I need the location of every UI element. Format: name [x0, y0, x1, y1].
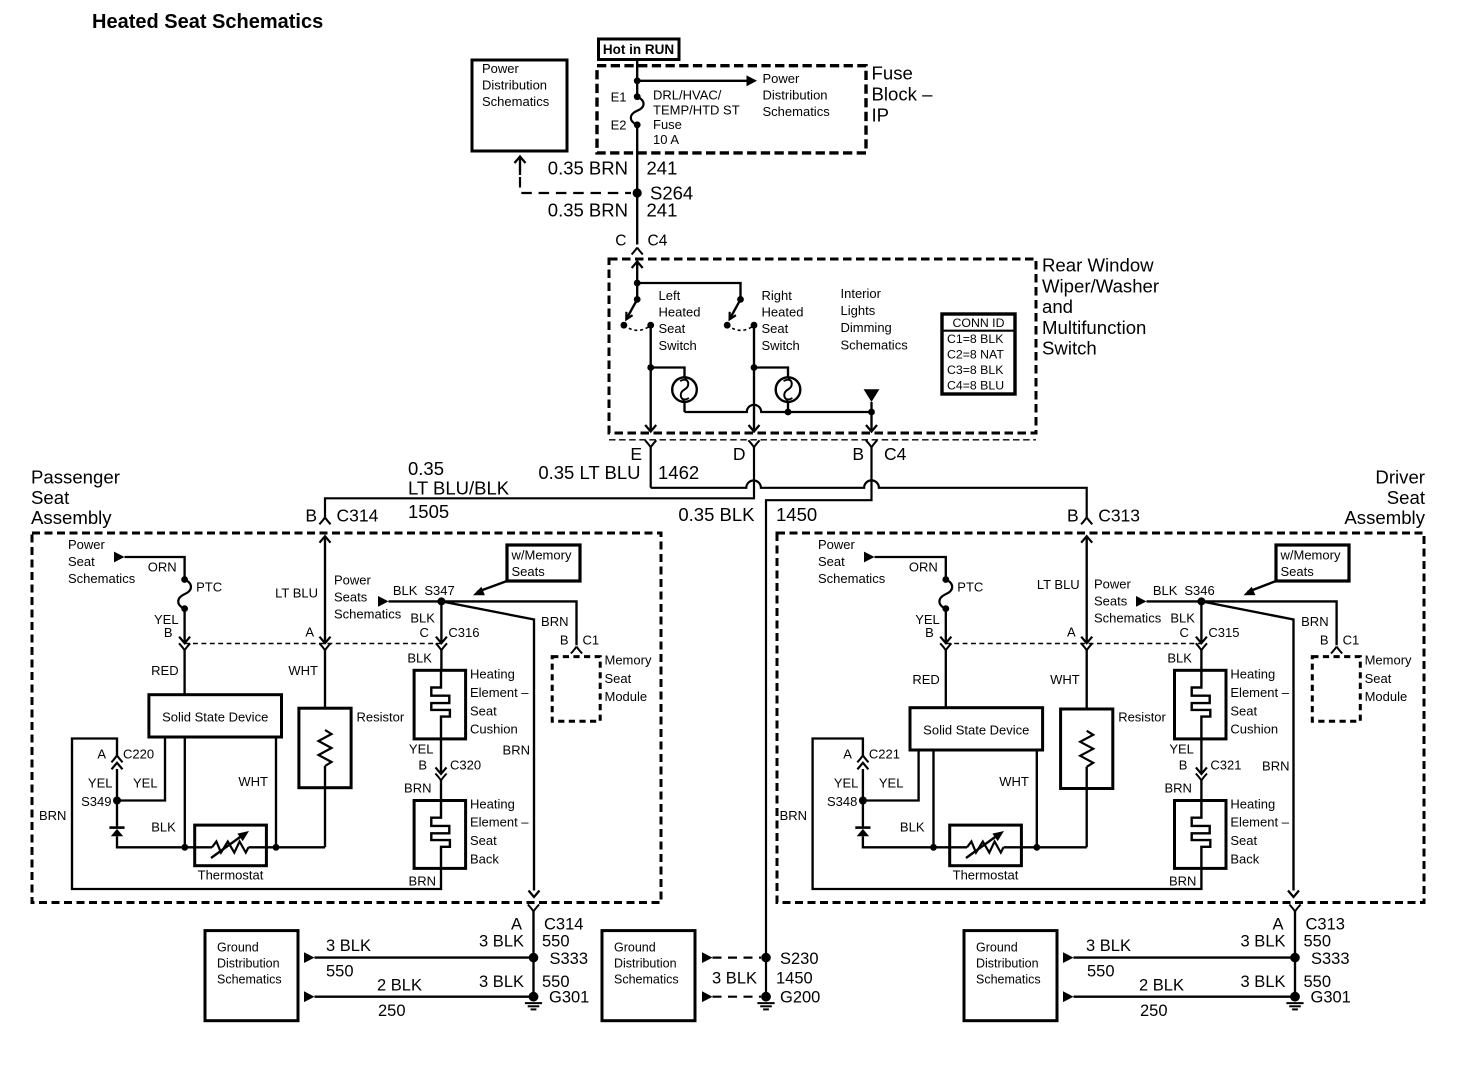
svg-text:G301: G301 — [549, 989, 589, 1007]
wire splice to connector A passenger — [112, 763, 123, 801]
svg-text:Assembly: Assembly — [1344, 507, 1425, 528]
svg-text:Memory: Memory — [1365, 653, 1412, 668]
splice S230 — [761, 950, 818, 968]
svg-text:Power: Power — [1094, 577, 1132, 592]
svg-text:A: A — [843, 747, 852, 762]
svg-text:Power: Power — [482, 61, 520, 76]
label power seat schematics driver — [818, 537, 886, 586]
wire left switch output — [650, 325, 652, 367]
svg-text:B: B — [305, 506, 317, 526]
svg-text:S230: S230 — [780, 950, 819, 968]
wire from power seat schematics passenger — [114, 552, 185, 580]
svg-text:Driver: Driver — [1375, 467, 1425, 488]
svg-text:10 A: 10 A — [653, 132, 679, 147]
svg-text:Seat: Seat — [68, 554, 95, 569]
label ORN passenger — [148, 560, 177, 575]
label YEL pin B passenger — [154, 612, 179, 640]
svg-text:0.35 BLK: 0.35 BLK — [678, 504, 755, 525]
switch SW2 right heated seat switch — [724, 296, 758, 330]
svg-text:Schematics: Schematics — [763, 104, 831, 119]
svg-text:C1=8 BLK: C1=8 BLK — [947, 332, 1004, 346]
label BLK feed passenger — [393, 583, 418, 598]
svg-text:C4: C4 — [884, 444, 907, 464]
svg-text:3 BLK: 3 BLK — [1241, 973, 1286, 991]
splice S333 passenger — [529, 950, 588, 968]
svg-text:0.35 BRN: 0.35 BRN — [548, 158, 628, 179]
svg-text:Schematics: Schematics — [818, 571, 886, 586]
label 0.35 BRN 241 lower — [548, 200, 678, 221]
wire SSD wht pin to thermostat passenger — [275, 737, 277, 847]
connector C315 pin C driver — [1180, 625, 1240, 650]
wire right lamp to return — [787, 402, 789, 412]
svg-text:Seats: Seats — [512, 564, 546, 579]
wire fuse output 241 — [636, 125, 638, 245]
wire PTC to connector B passenger — [179, 609, 190, 644]
label passenger seat assembly — [31, 467, 120, 529]
label 0.35 LT BLU 1462 — [538, 462, 699, 483]
in-seat connector interface line driver — [946, 643, 1202, 645]
svg-text:241: 241 — [647, 158, 678, 179]
connector C1 pin B passenger — [560, 633, 599, 654]
svg-text:A: A — [305, 625, 314, 640]
svg-text:WHT: WHT — [1050, 672, 1080, 687]
svg-text:Distribution: Distribution — [763, 87, 828, 102]
svg-text:Module: Module — [1365, 689, 1408, 704]
svg-text:Seat: Seat — [1230, 703, 1257, 718]
wire BRN seat return driver — [1201, 601, 1299, 897]
splice S348 driver — [827, 794, 867, 809]
label 0.35 BLK 1450 — [678, 504, 817, 525]
dimming feed triangle — [864, 389, 880, 412]
memory seat module driver — [1312, 653, 1412, 722]
wire right switch to connector D — [749, 368, 760, 432]
label BLK below splice driver — [1170, 611, 1195, 626]
connector C220 pin A passenger — [97, 747, 154, 763]
wire left switch to connector E — [645, 368, 656, 432]
label YEL pin B element driver — [1169, 742, 1241, 773]
label WHT feed driver — [1050, 672, 1080, 687]
svg-text:B: B — [418, 758, 427, 773]
svg-text:Seat: Seat — [31, 487, 70, 508]
svg-text:1505: 1505 — [408, 501, 449, 522]
label YEL pin B driver — [915, 612, 940, 640]
svg-text:WHT: WHT — [999, 774, 1029, 789]
fuse F DRL/HVAC/TEMP/HTD ST 10A — [631, 97, 644, 125]
svg-text:RED: RED — [151, 663, 178, 678]
label heating element seat back passenger — [470, 796, 529, 866]
diode CR1 passenger — [109, 801, 184, 848]
connector C1 pin B driver — [1320, 633, 1359, 654]
wire 1450 BLK pin B to ground — [766, 447, 872, 996]
label power seats schematics driver — [1094, 577, 1162, 626]
label BRN element top passenger — [404, 781, 431, 796]
svg-text:BRN: BRN — [541, 614, 568, 629]
node right lamp tap — [751, 364, 758, 371]
svg-text:2 BLK: 2 BLK — [377, 977, 422, 995]
lamp left switch illumination — [672, 377, 697, 402]
wire power seats schematics to splice passenger — [378, 596, 441, 607]
label BRN loop passenger — [39, 808, 66, 823]
svg-text:Seat: Seat — [605, 671, 632, 686]
wire SSD blk pin to thermostat passenger — [184, 737, 186, 847]
heating element seat back passenger — [414, 801, 466, 869]
seat assembly dashed box passenger — [32, 533, 661, 903]
svg-text:241: 241 — [647, 200, 678, 221]
splice S346 driver — [1184, 583, 1214, 605]
label 3 BLK 550 lower driver — [1241, 973, 1331, 991]
ground G301 passenger — [525, 989, 589, 1010]
wire C4-C into switch — [632, 262, 643, 284]
svg-text:YEL: YEL — [133, 776, 158, 791]
label power distribution schematics — [763, 71, 831, 119]
node thermostat left junction driver — [930, 844, 937, 851]
wire 550 ground feed driver — [1063, 952, 1295, 963]
thermistor PTC driver — [939, 576, 983, 612]
svg-text:YEL: YEL — [409, 742, 434, 757]
svg-text:3 BLK: 3 BLK — [479, 933, 524, 951]
heating element seat cushion driver — [1175, 670, 1227, 739]
svg-text:Passenger: Passenger — [31, 467, 120, 488]
svg-text:Ground: Ground — [217, 941, 259, 955]
svg-text:BRN: BRN — [503, 743, 530, 758]
svg-text:BLK: BLK — [393, 583, 418, 598]
svg-text:YEL: YEL — [834, 776, 859, 791]
solid state device passenger — [149, 695, 282, 737]
wire splice to connector C passenger — [436, 601, 447, 643]
svg-text:3 BLK: 3 BLK — [1086, 937, 1131, 955]
svg-text:Schematics: Schematics — [334, 607, 402, 622]
svg-text:Cushion: Cushion — [470, 722, 518, 737]
connector C4 pin E — [630, 440, 656, 464]
label WHT ssd passenger — [238, 774, 268, 789]
wire to left lamp — [651, 368, 685, 378]
label 3 BLK 550 lower passenger — [479, 973, 569, 991]
svg-text:ORN: ORN — [148, 560, 177, 575]
svg-text:E2: E2 — [611, 118, 627, 133]
svg-text:1462: 1462 — [658, 462, 699, 483]
label BRN return passenger — [503, 743, 530, 758]
heating element seat cushion passenger — [414, 670, 466, 739]
svg-text:C321: C321 — [1210, 758, 1241, 773]
node lamp return junction — [785, 409, 792, 416]
svg-text:BRN: BRN — [409, 874, 436, 889]
svg-text:Resistor: Resistor — [357, 710, 405, 725]
label Fuse Block IP — [872, 63, 934, 126]
wire SSD yel pin to splice driver — [863, 750, 919, 801]
label BRN element top driver — [1164, 781, 1191, 796]
svg-text:G200: G200 — [780, 989, 820, 1007]
svg-text:C3=8 BLK: C3=8 BLK — [947, 363, 1004, 377]
svg-text:Distribution: Distribution — [614, 957, 677, 971]
label 3 BLK 550 upper passenger — [479, 933, 569, 951]
wire to heating element back driver — [1200, 781, 1202, 801]
svg-text:Seat: Seat — [470, 833, 497, 848]
svg-text:E1: E1 — [611, 90, 627, 105]
label WHT ssd driver — [999, 774, 1029, 789]
connector C4 interface line — [609, 439, 1036, 441]
label fuse name — [653, 88, 740, 147]
thermostat passenger — [185, 825, 325, 882]
svg-text:G301: G301 — [1311, 989, 1351, 1007]
label BRN element bottom driver — [1169, 874, 1196, 889]
wire SSD yel pin to splice passenger — [117, 737, 165, 801]
thermistor PTC passenger — [178, 576, 222, 612]
wire BRN ground loop driver — [813, 739, 1202, 890]
svg-text:Block –: Block – — [872, 84, 934, 105]
svg-text:0.35 BRN: 0.35 BRN — [548, 200, 628, 221]
wire connector to S333 driver — [1294, 912, 1296, 997]
svg-text:C: C — [615, 233, 626, 250]
wire splice to connector C driver — [1196, 601, 1207, 643]
dashed reference wire to S264 — [515, 157, 632, 194]
svg-text:S333: S333 — [1311, 950, 1350, 968]
svg-text:w/Memory: w/Memory — [1280, 548, 1341, 563]
label BLK below splice passenger — [410, 611, 435, 626]
resistor R1 driver — [1061, 709, 1113, 847]
connector C313 pin A driver — [1272, 905, 1344, 934]
label 0.35 BRN 241 upper — [548, 158, 678, 179]
svg-text:Cushion: Cushion — [1230, 722, 1278, 737]
svg-text:0.35: 0.35 — [408, 458, 444, 479]
svg-text:Element –: Element – — [470, 685, 529, 700]
label right heated seat switch — [762, 288, 804, 353]
heating element seat back driver — [1175, 801, 1227, 869]
svg-text:BLK: BLK — [1167, 651, 1192, 666]
wire SSD blk pin to thermostat driver — [932, 750, 934, 847]
ground distribution schematics box driver — [964, 931, 1057, 1021]
svg-text:Assembly: Assembly — [31, 507, 112, 528]
svg-text:C1: C1 — [1343, 633, 1360, 648]
label left heated seat switch — [659, 288, 701, 353]
label driver seat assembly — [1344, 467, 1425, 529]
label RED driver — [912, 672, 939, 687]
label BRN loop driver — [780, 808, 807, 823]
switch SW1 left heated seat switch — [621, 296, 655, 330]
svg-text:C314: C314 — [337, 506, 379, 526]
connector pin A driver — [1067, 625, 1092, 651]
connector C314 pin B — [305, 506, 378, 526]
svg-text:Distribution: Distribution — [976, 957, 1039, 971]
label BLK ssd driver — [900, 820, 925, 835]
svg-text:Heated Seat Schematics: Heated Seat Schematics — [92, 11, 323, 33]
svg-text:Module: Module — [605, 689, 648, 704]
connector pin B to solid state device driver — [940, 643, 951, 707]
svg-text:Heating: Heating — [1230, 667, 1275, 682]
thermostat driver — [934, 825, 1087, 882]
svg-text:Heated: Heated — [659, 305, 701, 320]
connector C4 pin B — [852, 440, 906, 464]
svg-text:YEL: YEL — [1169, 742, 1194, 757]
svg-text:B: B — [164, 625, 173, 640]
svg-text:Schematics: Schematics — [976, 973, 1041, 987]
svg-text:S348: S348 — [827, 794, 857, 809]
connector pin A passenger — [305, 625, 330, 651]
connector pin B to solid state device passenger — [179, 643, 190, 694]
wire 550 ground feed passenger — [304, 952, 534, 963]
splice S264 — [633, 183, 694, 204]
svg-text:0.35 LT BLU: 0.35 LT BLU — [538, 462, 640, 483]
svg-text:Schematics: Schematics — [482, 94, 550, 109]
wire Hot in RUN to fuse — [636, 60, 638, 97]
connector C221 pin A driver — [843, 747, 900, 763]
svg-text:Heating: Heating — [470, 796, 515, 811]
svg-text:Element –: Element – — [1230, 685, 1289, 700]
svg-text:ORN: ORN — [909, 560, 938, 575]
label 3 BLK 550 upper driver — [1241, 933, 1331, 951]
svg-text:Seats: Seats — [334, 590, 368, 605]
svg-text:S346: S346 — [1184, 583, 1214, 598]
svg-text:PTC: PTC — [957, 580, 983, 595]
svg-text:C220: C220 — [123, 747, 154, 762]
connector C313 pin B — [1067, 506, 1140, 526]
svg-text:Power: Power — [68, 537, 106, 552]
label heating element seat cushion passenger — [470, 667, 529, 737]
svg-text:C1: C1 — [583, 633, 600, 648]
svg-text:Multifunction: Multifunction — [1042, 317, 1146, 338]
svg-text:1450: 1450 — [776, 970, 813, 988]
label heating element seat back driver — [1230, 796, 1289, 866]
connector C320 passenger — [435, 739, 446, 781]
svg-text:YEL: YEL — [88, 776, 113, 791]
wire BRN ground loop passenger — [72, 739, 441, 890]
svg-text:YEL: YEL — [879, 776, 904, 791]
wire 1505 LT BLU/BLK pin D to passenger seat — [325, 447, 754, 517]
wire WHT to resistor passenger — [324, 650, 326, 708]
svg-text:3 BLK: 3 BLK — [326, 937, 371, 955]
svg-text:S349: S349 — [81, 794, 111, 809]
node thermostat left junction passenger — [181, 844, 188, 851]
label BLK feed driver — [1153, 583, 1178, 598]
fuse block dashed box — [597, 66, 866, 153]
svg-text:3 BLK: 3 BLK — [479, 973, 524, 991]
svg-text:C320: C320 — [450, 758, 481, 773]
ground distribution schematics box middle — [602, 931, 695, 1021]
svg-text:BRN: BRN — [1301, 614, 1328, 629]
svg-text:Thermostat: Thermostat — [198, 868, 264, 883]
fuse terminal E1 — [611, 90, 641, 105]
label resistor driver — [1118, 710, 1166, 725]
svg-text:Ground: Ground — [614, 941, 656, 955]
in-seat connector interface line passenger — [185, 643, 441, 645]
svg-text:Seat: Seat — [1365, 671, 1392, 686]
wire 250 ground feed passenger — [304, 991, 534, 1002]
power distribution schematics box — [472, 60, 567, 151]
label power seat schematics passenger — [68, 537, 136, 586]
svg-text:C314: C314 — [544, 916, 583, 934]
svg-text:Seat: Seat — [659, 321, 686, 336]
svg-text:BLK: BLK — [407, 651, 432, 666]
diode CR1 driver — [855, 801, 933, 848]
wire SSD wht pin to thermostat driver — [1036, 750, 1038, 847]
label YEL pair passenger — [88, 776, 158, 791]
multifunction switch dashed box — [609, 259, 1036, 433]
label RED passenger — [151, 663, 178, 678]
svg-text:3 BLK: 3 BLK — [712, 970, 757, 988]
svg-text:Back: Back — [470, 851, 499, 866]
svg-text:A: A — [1067, 625, 1076, 640]
resistor R1 passenger — [299, 708, 351, 847]
svg-text:C: C — [420, 625, 429, 640]
connector C321 driver — [1196, 739, 1207, 781]
label 0.35 LT BLU/BLK 1505 — [408, 458, 510, 522]
svg-text:1450: 1450 — [776, 504, 817, 525]
svg-text:and: and — [1042, 296, 1073, 317]
svg-text:Memory: Memory — [605, 653, 652, 668]
solid state device driver — [910, 708, 1043, 750]
svg-text:CONN ID: CONN ID — [953, 316, 1005, 330]
ground distribution schematics box passenger — [205, 931, 298, 1021]
fuse terminal E2 — [611, 118, 641, 133]
svg-text:550: 550 — [1087, 963, 1115, 981]
label BRN element bottom passenger — [409, 874, 436, 889]
svg-text:B: B — [852, 444, 864, 464]
svg-text:S333: S333 — [550, 950, 589, 968]
svg-text:250: 250 — [1140, 1002, 1168, 1020]
label LT BLU driver — [1037, 577, 1080, 592]
svg-text:250: 250 — [378, 1002, 406, 1020]
svg-text:C4=8 BLU: C4=8 BLU — [947, 379, 1004, 393]
wire lamp return with hop — [685, 405, 872, 412]
svg-text:Switch: Switch — [659, 338, 697, 353]
label 2 BLK 250 wire passenger — [377, 977, 422, 1021]
svg-text:C: C — [1180, 625, 1189, 640]
svg-text:Resistor: Resistor — [1118, 710, 1166, 725]
svg-text:Distribution: Distribution — [217, 957, 280, 971]
svg-text:Fuse: Fuse — [872, 63, 913, 84]
svg-text:Power: Power — [818, 537, 856, 552]
memory seat module passenger — [552, 653, 652, 722]
svg-text:2 BLK: 2 BLK — [1139, 977, 1184, 995]
svg-text:B: B — [1320, 633, 1329, 648]
wire to right lamp — [754, 368, 788, 378]
label resistor passenger — [357, 710, 405, 725]
wire BRN seat return passenger — [441, 601, 539, 897]
wire connector to S333 passenger — [532, 912, 534, 997]
svg-text:BRN: BRN — [1164, 781, 1191, 796]
svg-text:Ground: Ground — [976, 941, 1018, 955]
label YEL pair driver — [834, 776, 904, 791]
svg-text:BRN: BRN — [404, 781, 431, 796]
conn id table — [942, 314, 1015, 394]
svg-text:C316: C316 — [448, 625, 479, 640]
svg-text:Switch: Switch — [762, 338, 800, 353]
svg-text:Solid State Device: Solid State Device — [923, 723, 1029, 738]
svg-text:BLK: BLK — [410, 611, 435, 626]
svg-text:WHT: WHT — [238, 774, 268, 789]
splice S349 passenger — [81, 794, 121, 809]
wire left lamp to return — [683, 402, 685, 412]
svg-text:Interior: Interior — [841, 286, 882, 301]
svg-text:PTC: PTC — [196, 580, 222, 595]
splice S333 driver — [1290, 950, 1349, 968]
svg-text:Seat: Seat — [1230, 833, 1257, 848]
wire 250 ground feed driver — [1063, 991, 1295, 1002]
connector C314 pin A passenger — [511, 905, 583, 934]
svg-text:BLK: BLK — [1170, 611, 1195, 626]
svg-text:Heating: Heating — [1230, 796, 1275, 811]
wire to heating element cushion driver — [1200, 650, 1202, 670]
lamp right switch illumination — [776, 377, 801, 402]
svg-text:C4: C4 — [648, 233, 668, 250]
label BLK element driver — [1167, 651, 1192, 666]
power source box Hot in RUN — [599, 39, 680, 60]
svg-text:Schematics: Schematics — [68, 571, 136, 586]
wire LT BLU seat feed driver — [1081, 536, 1092, 643]
wire arrow to power distribution schematics — [637, 75, 757, 86]
svg-text:Back: Back — [1230, 851, 1259, 866]
title — [92, 11, 323, 33]
svg-text:Element –: Element – — [1230, 815, 1289, 830]
